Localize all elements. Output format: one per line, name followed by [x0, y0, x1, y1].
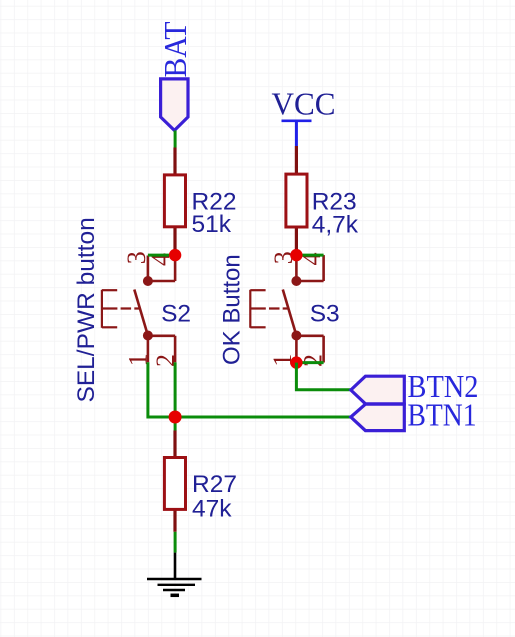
junction J4: [290, 356, 302, 368]
resistor R22: [164, 148, 236, 256]
port BTN2: [351, 368, 479, 404]
wire S2 pin1 down: [148, 362, 175, 417]
wire S2 pin3 jumper: [148, 254, 175, 257]
junction J1: [169, 249, 181, 261]
wire S2 pin2 down: [174, 362, 177, 417]
resistor R27: [164, 431, 237, 532]
svg-text:S3: S3: [310, 301, 340, 328]
wire R27 to ground: [174, 532, 177, 553]
port BAT: [157, 21, 193, 130]
svg-text:S2: S2: [161, 301, 191, 328]
wire J4 to BTN2: [296, 363, 350, 390]
svg-text:2: 2: [298, 354, 327, 367]
junction J3: [290, 249, 302, 261]
power port VCC: [272, 85, 336, 146]
resistor R23: [286, 146, 359, 255]
svg-text:SEL/PWR button: SEL/PWR button: [73, 217, 100, 402]
switch S3: [250, 255, 323, 362]
svg-text:OK Button: OK Button: [219, 254, 246, 365]
junction J2: [169, 411, 182, 424]
svg-text:4,7k: 4,7k: [312, 212, 359, 239]
svg-text:51k: 51k: [192, 211, 232, 238]
svg-text:BAT: BAT: [157, 21, 193, 77]
wire S3 pin4 jumper: [296, 254, 323, 257]
switch S2: [102, 255, 175, 362]
wire S3 pin2 to junction J4: [296, 361, 323, 364]
svg-text:R27: R27: [192, 471, 237, 498]
svg-text:VCC: VCC: [272, 85, 336, 121]
svg-text:BTN1: BTN1: [408, 397, 477, 433]
ground: [147, 553, 202, 596]
wire J2 to R27: [174, 417, 177, 431]
wire BAT to R22: [174, 131, 177, 148]
wire J2 to BTN1: [175, 416, 351, 419]
svg-text:47k: 47k: [192, 496, 232, 523]
port BTN1: [351, 397, 477, 433]
